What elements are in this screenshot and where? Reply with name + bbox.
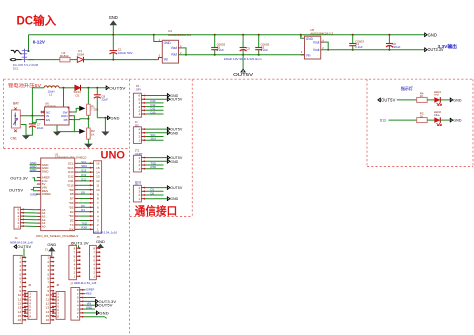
svg-text:UNO: UNO [101,150,126,162]
svg-text:IOREF: IOREF [30,192,38,196]
svg-text:SS54: SS54 [77,53,84,57]
svg-text:D8: D8 [81,191,85,195]
svg-text:GND: GND [170,197,178,201]
svg-text:OUT5V: OUT5V [9,187,23,192]
svg-text:OUT5V: OUT5V [381,97,396,102]
svg-text:1K: 1K [420,94,424,98]
svg-text:GND: GND [164,41,172,45]
svg-text:22uF: 22uF [37,126,44,130]
svg-text:D10: D10 [151,110,156,114]
svg-text:C5: C5 [246,46,250,50]
svg-text:VIN: VIN [87,302,92,306]
svg-text:16: 16 [46,318,50,322]
svg-text:CN1: CN1 [10,136,17,140]
svg-text:Vout: Vout [171,46,177,50]
svg-text:16: 16 [18,318,22,322]
svg-text:blue: blue [434,113,440,117]
svg-text:J2: J2 [15,236,18,240]
svg-text:Vout: Vout [313,48,319,52]
svg-text:2.2uF: 2.2uF [355,45,363,49]
svg-text:R1812: R1812 [60,54,69,58]
svg-text:UNO_R3_SHIELD_NOLABELS: UNO_R3_SHIELD_NOLABELS [36,234,78,238]
svg-text:22uF: 22uF [101,97,108,101]
svg-text:GND: GND [42,170,50,174]
svg-text:*D3: *D3 [69,214,74,218]
svg-text:D2: D2 [70,219,74,223]
svg-text:FB: FB [64,118,68,122]
svg-text:2.2uF: 2.2uF [217,48,225,52]
svg-text:HDR-M-2.54_1x16: HDR-M-2.54_1x16 [93,230,117,234]
svg-text:D13: D13 [380,119,386,123]
svg-text:SDA: SDA [67,166,73,170]
svg-text:11: 11 [96,184,99,188]
svg-text:OUT5V: OUT5V [233,72,253,77]
svg-text:GND: GND [47,242,56,247]
svg-text:A0: A0 [42,225,46,229]
svg-text:100uF 50V: 100uF 50V [118,51,133,55]
svg-text:TXD: TXD [81,221,86,225]
svg-text:D12: D12 [151,103,156,107]
svg-text:D11: D11 [68,179,74,183]
svg-text:BAT: BAT [13,102,19,106]
svg-text:13: 13 [96,175,100,179]
svg-text:220uF: 220uF [392,45,400,49]
svg-text:D11: D11 [81,177,86,181]
svg-text:IOREF: IOREF [86,287,95,291]
svg-text:D2: D2 [76,93,80,97]
svg-text:OUT5V: OUT5V [99,303,113,308]
svg-text:D11: D11 [151,107,156,111]
svg-text:J7: J7 [70,282,73,286]
svg-text:GND: GND [170,131,178,135]
svg-text:GND: GND [428,32,438,37]
svg-text:IOREF: IOREF [42,192,51,196]
svg-text:*D10: *D10 [67,183,74,187]
svg-text:Vout: Vout [171,53,177,57]
svg-text:1K: 1K [91,132,95,136]
svg-text:GND: GND [453,98,462,102]
svg-text:*D5: *D5 [69,205,74,209]
svg-text:SCL: SCL [68,161,74,165]
svg-text:HDR-M-2.54_1x8: HDR-M-2.54_1x8 [74,281,97,285]
svg-text:SCL: SCL [151,133,157,137]
svg-text:GND: GND [111,115,120,120]
svg-text:red: red [434,93,439,97]
svg-text:3.3V输出: 3.3V输出 [438,43,458,50]
svg-text:J3: J3 [45,247,48,251]
svg-text:OUT3.3V: OUT3.3V [10,175,28,180]
svg-text:RXD: RXD [151,165,157,169]
svg-text:L1: L1 [49,93,53,97]
svg-text:D13: D13 [68,170,74,174]
svg-text:RES: RES [86,291,92,295]
svg-text:DC1: DC1 [13,66,19,70]
svg-text:12: 12 [96,179,100,183]
svg-text:GND: GND [99,310,108,315]
svg-text:GND: GND [109,15,118,20]
svg-text:GND: GND [96,239,105,244]
svg-text:RX: RX [69,227,73,231]
svg-text:D13: D13 [81,169,86,173]
svg-text:J8: J8 [56,283,59,287]
svg-text:14: 14 [96,170,100,174]
svg-text:D0: D0 [151,191,155,195]
svg-text:16: 16 [96,162,100,166]
svg-text:D4: D4 [81,208,85,212]
svg-text:D12: D12 [81,173,86,177]
svg-text:1K: 1K [420,114,424,118]
svg-text:J6: J6 [28,283,31,287]
svg-text:GND: GND [30,168,38,172]
svg-text:通信接口: 通信接口 [135,205,177,218]
svg-text:Vin: Vin [306,53,311,57]
svg-text:GND: GND [86,306,92,310]
svg-text:OUT5V: OUT5V [170,98,183,102]
svg-text:GND: GND [453,119,462,123]
svg-text:10: 10 [96,188,100,192]
svg-text:D5: D5 [81,204,85,208]
svg-text:蓝牙: 蓝牙 [135,180,142,185]
svg-text:D8: D8 [70,192,74,196]
svg-text:D1: D1 [151,188,155,192]
svg-text:AMS1084CM-3.3: AMS1084CM-3.3 [310,32,333,36]
svg-text:*D9: *D9 [69,188,74,192]
svg-text:OUT5V: OUT5V [170,186,183,190]
svg-text:D4: D4 [70,210,74,214]
svg-text:AMS1084CM-5.0: AMS1084CM-5.0 [168,33,191,37]
svg-text:DC输入: DC输入 [17,14,57,28]
svg-text:D7: D7 [70,197,74,201]
svg-text:2.2uF: 2.2uF [261,48,269,52]
svg-text:OUT5V: OUT5V [17,244,31,249]
svg-text:TXD: TXD [151,161,156,165]
svg-text:SCL: SCL [81,160,87,164]
svg-text:SPI: SPI [136,87,141,91]
svg-text:EN: EN [46,118,50,122]
svg-text:D13: D13 [151,99,156,103]
svg-text:指示灯: 指示灯 [401,85,413,91]
svg-text:SDA: SDA [151,137,157,141]
svg-text:D12: D12 [68,175,74,179]
svg-text:Vout: Vout [313,40,319,44]
svg-text:J1: J1 [70,242,73,246]
svg-text:Vin: Vin [164,57,169,61]
svg-text:6-12V: 6-12V [33,40,46,45]
svg-text:15: 15 [96,166,100,170]
svg-text:RXD: RXD [81,226,87,230]
svg-text:*D6: *D6 [69,201,74,205]
svg-text:TX: TX [70,223,74,227]
svg-text:OUT5V: OUT5V [109,85,126,90]
svg-text:GND: GND [170,160,178,164]
svg-text:SDA: SDA [81,164,87,168]
